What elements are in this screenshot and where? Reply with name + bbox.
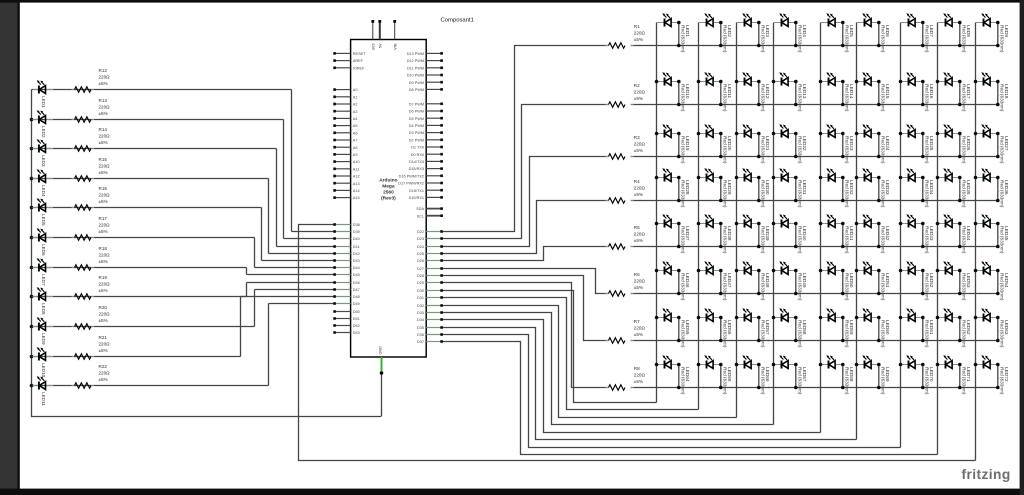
arduino right pin D9 PWM [409, 81, 443, 85]
wire left row 8 to pin D46 [247, 282, 336, 284]
svg-text:R21: R21 [99, 335, 108, 340]
svg-text:Red (633nm): Red (633nm) [798, 25, 803, 53]
junction LED66 cathode to column bus [735, 363, 739, 367]
wire left row 10 riser [240, 297, 242, 357]
wire left row 1 riser [291, 90, 293, 232]
svg-text:LED4: LED4 [41, 185, 46, 197]
LED LED12 (matrix r2c3) [737, 72, 770, 112]
arduino right pin D37 [417, 340, 443, 344]
svg-text:D53: D53 [353, 331, 360, 335]
LED LED27 (matrix r3c9) [976, 124, 1009, 164]
junction LED13 cathode to column bus [772, 80, 776, 84]
LED LED70 (matrix r8c7) [901, 355, 934, 395]
junction LED44 cathode to column bus [936, 222, 940, 226]
junction LED20 anode to row [719, 155, 723, 159]
LED LED4 (left column) [33, 169, 53, 197]
svg-text:Red (633nm): Red (633nm) [1000, 367, 1005, 395]
arduino right pin D10 PWM [407, 74, 443, 78]
svg-text:Red (633nm): Red (633nm) [761, 136, 766, 164]
svg-text:A8: A8 [353, 146, 358, 150]
svg-text:D23: D23 [417, 237, 424, 241]
wire column 3 from D32 [441, 306, 737, 418]
resistor R3 [606, 135, 646, 159]
arduino right pin D31 [417, 296, 443, 300]
svg-text:D52: D52 [353, 324, 360, 328]
svg-text:Red (633nm): Red (633nm) [925, 136, 930, 164]
junction LED58 cathode to column bus [772, 316, 776, 320]
LED LED10 (left column) [33, 347, 53, 377]
junction LED54 cathode to column bus [974, 269, 978, 273]
svg-text:Red (633nm): Red (633nm) [925, 226, 930, 254]
resistor R5 [606, 225, 646, 249]
junction LED64 anode to row [677, 386, 681, 390]
arduino right pin D27 [417, 267, 443, 271]
svg-text:LED7: LED7 [41, 274, 46, 286]
junction LED11 cathode to column bus [697, 80, 701, 84]
junction LED24 cathode to column bus [855, 132, 859, 136]
resistor R22 [72, 364, 111, 388]
svg-text:Red (633nm): Red (633nm) [881, 273, 886, 301]
arduino left pin RESET [333, 52, 366, 56]
arduino left pin D44 [333, 266, 359, 270]
junction LED17 anode to row [958, 103, 962, 107]
svg-text:Arduino: Arduino [379, 178, 397, 184]
LED LED13 (matrix r2c4) [774, 72, 807, 112]
svg-text:220Ω: 220Ω [99, 342, 111, 347]
wire matrix column 4 bus [773, 23, 775, 425]
svg-text:D15/RX3: D15/RX3 [409, 167, 424, 171]
junction LED60 anode to row [877, 339, 881, 343]
svg-text:220Ω: 220Ω [634, 232, 646, 237]
junction LED16 cathode to column bus [899, 80, 903, 84]
arduino left pin A9 [333, 153, 357, 157]
LED LED2 (matrix r1c2) [699, 13, 732, 53]
wire matrix row 3 horizontal [631, 156, 998, 158]
junction LED49 anode to row [794, 292, 798, 296]
svg-text:Red (633nm): Red (633nm) [881, 226, 886, 254]
svg-text:220Ω: 220Ω [99, 105, 111, 110]
junction LED1 anode to row [677, 44, 681, 48]
resistor R1 [606, 24, 646, 48]
svg-text:fritzing: fritzing [962, 467, 1011, 482]
svg-text:Red (633nm): Red (633nm) [798, 367, 803, 395]
svg-text:Red (633nm): Red (633nm) [761, 320, 766, 348]
svg-text:Red (633nm): Red (633nm) [681, 273, 686, 301]
svg-text:D29: D29 [417, 281, 424, 285]
junction on left bus row 8 [30, 295, 34, 299]
wire matrix row 7 from D28 [441, 276, 609, 341]
svg-text:R17: R17 [99, 216, 108, 221]
junction LED15 cathode to column bus [855, 80, 859, 84]
svg-text:(Rev3): (Rev3) [381, 196, 396, 202]
svg-text:Red (633nm): Red (633nm) [962, 84, 967, 112]
svg-text:Red (633nm): Red (633nm) [681, 180, 686, 208]
junction LED57 cathode to column bus [735, 316, 739, 320]
svg-text:A6: A6 [353, 131, 358, 135]
wire left row 3 riser [276, 149, 278, 247]
wire matrix row 6 from D27 [441, 269, 609, 294]
wire matrix column 9 bus [975, 23, 977, 461]
svg-text:Red (633nm): Red (633nm) [723, 25, 728, 53]
LED LED63 (matrix r7c9) [976, 308, 1009, 348]
arduino right pin D33 [417, 311, 443, 315]
wire left row 9 riser [254, 290, 256, 327]
LED LED19 (matrix r3c1) [657, 124, 690, 164]
svg-text:Red (633nm): Red (633nm) [761, 273, 766, 301]
svg-text:D22: D22 [417, 230, 424, 234]
junction on left bus row 9 [30, 325, 34, 329]
junction LED5 anode to row [841, 44, 845, 48]
svg-text:D25: D25 [417, 252, 424, 256]
wire left row 11 horizontal [32, 385, 269, 387]
arduino left pin D41 [333, 245, 359, 249]
top black bar [0, 0, 1024, 3]
arduino top pin 5V [378, 20, 382, 48]
LED LED41 (matrix r5c5) [821, 214, 854, 254]
arduino left pin A15 [333, 196, 359, 200]
svg-text:Red (633nm): Red (633nm) [798, 320, 803, 348]
svg-text:D18/TX1: D18/TX1 [409, 189, 424, 193]
junction LED52 anode to row [921, 292, 925, 296]
arduino left pin D39 [333, 230, 359, 234]
svg-text:220Ω: 220Ω [634, 31, 646, 36]
LED LED8 (matrix r1c8) [938, 13, 971, 53]
svg-text:R5: R5 [634, 225, 640, 230]
wire matrix row 6 horizontal [631, 293, 998, 295]
svg-text:Red (633nm): Red (633nm) [723, 136, 728, 164]
arduino left pin A13 [333, 182, 359, 186]
arduino left pin A5 [333, 124, 357, 128]
wire matrix row 8 horizontal [631, 387, 998, 389]
junction LED71 anode to row [958, 386, 962, 390]
arduino left pin A3 [333, 110, 357, 114]
svg-text:D2 PWM: D2 PWM [409, 138, 424, 142]
junction LED9 anode to row [996, 44, 1000, 48]
LED LED3 (left column) [33, 139, 53, 167]
arduino left pin A0 [333, 88, 357, 92]
junction LED60 cathode to column bus [855, 316, 859, 320]
LED LED28 (matrix r4c1) [657, 168, 690, 208]
svg-text:D19/RX1: D19/RX1 [409, 196, 424, 200]
wire matrix row 5 riser from D26 [441, 247, 609, 261]
junction LED15 anode to row [877, 103, 881, 107]
svg-text:±5%: ±5% [99, 140, 108, 145]
svg-text:Red (633nm): Red (633nm) [881, 320, 886, 348]
resistor R18 [72, 246, 111, 270]
svg-text:D35: D35 [417, 326, 424, 330]
junction LED30 cathode to column bus [735, 176, 739, 180]
junction LED26 anode to row [958, 155, 962, 159]
LED LED34 (matrix r4c7) [901, 168, 934, 208]
svg-text:Red (633nm): Red (633nm) [681, 84, 686, 112]
svg-text:D37: D37 [417, 340, 424, 344]
svg-text:Red (633nm): Red (633nm) [723, 84, 728, 112]
svg-text:D44: D44 [353, 266, 360, 270]
svg-text:Red (633nm): Red (633nm) [962, 136, 967, 164]
wire left row 7 riser [246, 268, 248, 275]
junction LED10 anode to row [677, 103, 681, 107]
arduino right pin SCL [417, 214, 443, 218]
junction LED31 cathode to column bus [772, 176, 776, 180]
wire left row 10 horizontal [32, 356, 241, 358]
LED LED69 (matrix r8c6) [857, 355, 890, 395]
wire matrix column 6 bus [856, 23, 858, 440]
svg-text:Red (633nm): Red (633nm) [1000, 320, 1005, 348]
LED LED36 (matrix r4c9) [976, 168, 1009, 208]
svg-text:220Ω: 220Ω [634, 279, 646, 284]
svg-text:R18: R18 [99, 246, 108, 251]
junction LED48 cathode to column bus [735, 269, 739, 273]
svg-text:220Ω: 220Ω [99, 134, 111, 139]
svg-text:R1: R1 [634, 24, 640, 29]
resistor R4 [606, 179, 646, 203]
junction LED7 anode to row [921, 44, 925, 48]
svg-text:Red (633nm): Red (633nm) [681, 25, 686, 53]
LED LED6 (matrix r1c6) [857, 13, 890, 53]
wire left row 2 riser [283, 120, 285, 239]
svg-text:Red (633nm): Red (633nm) [845, 320, 850, 348]
LED LED40 (matrix r5c4) [774, 214, 807, 254]
junction LED42 anode to row [877, 245, 881, 249]
svg-text:A4: A4 [353, 117, 358, 121]
svg-text:Red (633nm): Red (633nm) [761, 25, 766, 53]
arduino left pin D46 [333, 281, 359, 285]
svg-text:Red (633nm): Red (633nm) [962, 273, 967, 301]
svg-text:A2: A2 [353, 103, 358, 107]
svg-text:Red (633nm): Red (633nm) [723, 226, 728, 254]
svg-text:Red (633nm): Red (633nm) [962, 25, 967, 53]
arduino right pin D6 PWM [409, 110, 443, 114]
resistor R17 [72, 216, 111, 240]
arduino right pin D29 [417, 281, 443, 285]
arduino right pin D26 [417, 259, 443, 263]
junction LED50 anode to row [841, 292, 845, 296]
svg-text:D34: D34 [417, 318, 424, 322]
svg-text:A13: A13 [353, 182, 360, 186]
arduino right pin D14/TX3 [409, 160, 443, 164]
svg-text:LED10: LED10 [41, 363, 46, 377]
junction LED21 cathode to column bus [735, 132, 739, 136]
LED LED8 (left column) [33, 287, 53, 315]
junction LED46 cathode to column bus [655, 269, 659, 273]
wire matrix row 2 riser from D23 [441, 105, 609, 239]
junction LED51 anode to row [877, 292, 881, 296]
wire matrix row 4 horizontal [631, 200, 998, 202]
junction LED55 anode to row [677, 339, 681, 343]
svg-text:Red (633nm): Red (633nm) [881, 84, 886, 112]
arduino left pin D42 [333, 252, 359, 256]
junction on left bus row 2 [30, 118, 34, 122]
wire matrix row 1 horizontal [631, 45, 998, 47]
LED LED23 (matrix r3c5) [821, 124, 854, 164]
LED LED66 (matrix r8c3) [737, 355, 770, 395]
LED LED71 (matrix r8c8) [938, 355, 971, 395]
wire left row 3 to pin D41 [277, 246, 336, 248]
wire left row 2 to pin D40 [284, 238, 336, 240]
svg-text:Red (633nm): Red (633nm) [798, 84, 803, 112]
junction LED18 cathode to column bus [974, 80, 978, 84]
svg-text:±5%: ±5% [99, 259, 108, 264]
LED LED39 (matrix r5c3) [737, 214, 770, 254]
junction LED41 cathode to column bus [819, 222, 823, 226]
resistor R20 [72, 305, 111, 329]
LED LED50 (matrix r6c5) [821, 261, 854, 301]
svg-text:D41: D41 [353, 245, 360, 249]
junction LED67 cathode to column bus [772, 363, 776, 367]
LED LED7 (matrix r1c7) [901, 13, 934, 53]
junction LED37 anode to row [677, 245, 681, 249]
svg-text:Red (633nm): Red (633nm) [881, 180, 886, 208]
wire matrix row 7 horizontal [631, 340, 998, 342]
svg-text:±5%: ±5% [634, 238, 643, 243]
LED LED58 (matrix r7c4) [774, 308, 807, 348]
svg-text:220Ω: 220Ω [634, 142, 646, 147]
wire matrix row 5 horizontal [631, 246, 998, 248]
svg-text:2560: 2560 [383, 190, 394, 196]
wire left row 4 to pin D42 [269, 253, 336, 255]
svg-text:Red (633nm): Red (633nm) [723, 367, 728, 395]
svg-text:R12: R12 [99, 68, 108, 73]
LED LED45 (matrix r5c9) [976, 214, 1009, 254]
svg-text:±5%: ±5% [634, 332, 643, 337]
arduino right pin D13 PWM [407, 52, 443, 56]
junction on left bus row 5 [30, 206, 34, 210]
svg-text:Red (633nm): Red (633nm) [1000, 136, 1005, 164]
wire matrix row 1 riser from D22 [441, 46, 609, 232]
arduino right pin D2 PWM [409, 138, 443, 142]
LED LED17 (matrix r2c8) [938, 72, 971, 112]
svg-text:D0 RX0: D0 RX0 [411, 153, 424, 157]
svg-text:D14/TX3: D14/TX3 [409, 160, 424, 164]
svg-text:Red (633nm): Red (633nm) [798, 226, 803, 254]
svg-text:Red (633nm): Red (633nm) [1000, 226, 1005, 254]
svg-text:Red (633nm): Red (633nm) [1000, 25, 1005, 53]
arduino right pin D8 PWM [409, 88, 443, 92]
LED LED25 (matrix r3c7) [901, 124, 934, 164]
LED LED44 (matrix r5c8) [938, 214, 971, 254]
svg-text:D16 PWM/TX2: D16 PWM/TX2 [399, 174, 424, 178]
junction LED67 anode to row [794, 386, 798, 390]
wire left row 11 to pin D49 [269, 303, 336, 305]
junction LED31 anode to row [794, 199, 798, 203]
LED LED7 (left column) [33, 258, 53, 286]
svg-text:D39: D39 [353, 230, 360, 234]
svg-text:±5%: ±5% [634, 96, 643, 101]
wire left row 1 horizontal [32, 89, 292, 91]
resistor R12 [72, 68, 111, 92]
svg-text:D27: D27 [417, 267, 424, 271]
wire matrix column 7 bus [900, 23, 902, 448]
svg-text:A7: A7 [353, 139, 358, 143]
resistor R13 [72, 98, 111, 122]
LED LED52 (matrix r6c7) [901, 261, 934, 301]
junction LED64 cathode to column bus [655, 363, 659, 367]
junction LED36 anode to row [996, 199, 1000, 203]
svg-text:±5%: ±5% [99, 377, 108, 382]
arduino right pin D4 PWM [409, 124, 443, 128]
svg-text:220Ω: 220Ω [634, 373, 646, 378]
svg-text:D24: D24 [417, 245, 424, 249]
svg-text:D1 TX0: D1 TX0 [411, 146, 424, 150]
svg-text:A0: A0 [353, 88, 358, 92]
wire column 9 from D38 [299, 225, 976, 461]
resistor R19 [72, 275, 111, 299]
junction LED23 anode to row [841, 155, 845, 159]
junction LED69 anode to row [877, 386, 881, 390]
svg-text:A1: A1 [353, 95, 358, 99]
LED LED53 (matrix r6c8) [938, 261, 971, 301]
arduino right pin D25 [417, 252, 443, 256]
svg-text:220Ω: 220Ω [634, 186, 646, 191]
svg-text:Red (633nm): Red (633nm) [962, 320, 967, 348]
wire left row 11 riser [268, 304, 270, 386]
junction LED63 cathode to column bus [974, 316, 978, 320]
junction LED62 cathode to column bus [936, 316, 940, 320]
junction LED35 anode to row [958, 199, 962, 203]
svg-text:±5%: ±5% [634, 192, 643, 197]
junction LED59 anode to row [841, 339, 845, 343]
LED LED1 (left column) [33, 80, 53, 108]
junction LED14 cathode to column bus [819, 80, 823, 84]
svg-text:Composant1: Composant1 [441, 18, 474, 24]
LED LED16 (matrix r2c7) [901, 72, 934, 112]
junction LED69 cathode to column bus [855, 363, 859, 367]
junction LED51 cathode to column bus [855, 269, 859, 273]
junction LED12 cathode to column bus [735, 80, 739, 84]
junction LED10 cathode to column bus [655, 80, 659, 84]
junction LED53 anode to row [958, 292, 962, 296]
right black bar [1020, 0, 1024, 495]
svg-text:Red (633nm): Red (633nm) [925, 367, 930, 395]
svg-text:D9 PWM: D9 PWM [409, 81, 424, 85]
arduino right pin D11 PWM [407, 66, 443, 70]
junction LED22 cathode to column bus [772, 132, 776, 136]
wire left row 8 riser [246, 283, 248, 297]
LED LED43 (matrix r5c7) [901, 214, 934, 254]
svg-text:D10 PWM: D10 PWM [407, 74, 424, 78]
arduino left pin A7 [333, 139, 357, 143]
LED LED55 (matrix r7c1) [657, 308, 690, 348]
junction LED36 cathode to column bus [974, 176, 978, 180]
svg-text:D48: D48 [353, 295, 360, 299]
svg-text:Red (633nm): Red (633nm) [845, 273, 850, 301]
svg-text:R7: R7 [634, 319, 640, 324]
junction LED39 anode to row [757, 245, 761, 249]
svg-text:Red (633nm): Red (633nm) [962, 367, 967, 395]
svg-text:R6: R6 [634, 272, 640, 277]
svg-text:D32: D32 [417, 304, 424, 308]
arduino left pin A6 [333, 131, 357, 135]
svg-text:Red (633nm): Red (633nm) [845, 367, 850, 395]
junction LED40 anode to row [794, 245, 798, 249]
svg-text:Red (633nm): Red (633nm) [723, 180, 728, 208]
svg-text:Red (633nm): Red (633nm) [1000, 84, 1005, 112]
svg-text:R3: R3 [634, 135, 640, 140]
svg-text:±5%: ±5% [99, 348, 108, 353]
junction LED4 anode to row [794, 44, 798, 48]
wire column 5 from D34 [441, 320, 821, 433]
svg-text:R4: R4 [634, 179, 640, 184]
wire left row 2 horizontal [32, 119, 284, 121]
LED LED38 (matrix r5c2) [699, 214, 732, 254]
svg-text:D11 PWM: D11 PWM [407, 66, 424, 70]
junction LED19 anode to row [677, 155, 681, 159]
LED LED56 (matrix r7c2) [699, 308, 732, 348]
svg-text:Red (633nm): Red (633nm) [925, 180, 930, 208]
junction LED29 anode to row [719, 199, 723, 203]
svg-text:220Ω: 220Ω [99, 223, 111, 228]
LED LED59 (matrix r7c5) [821, 308, 854, 348]
